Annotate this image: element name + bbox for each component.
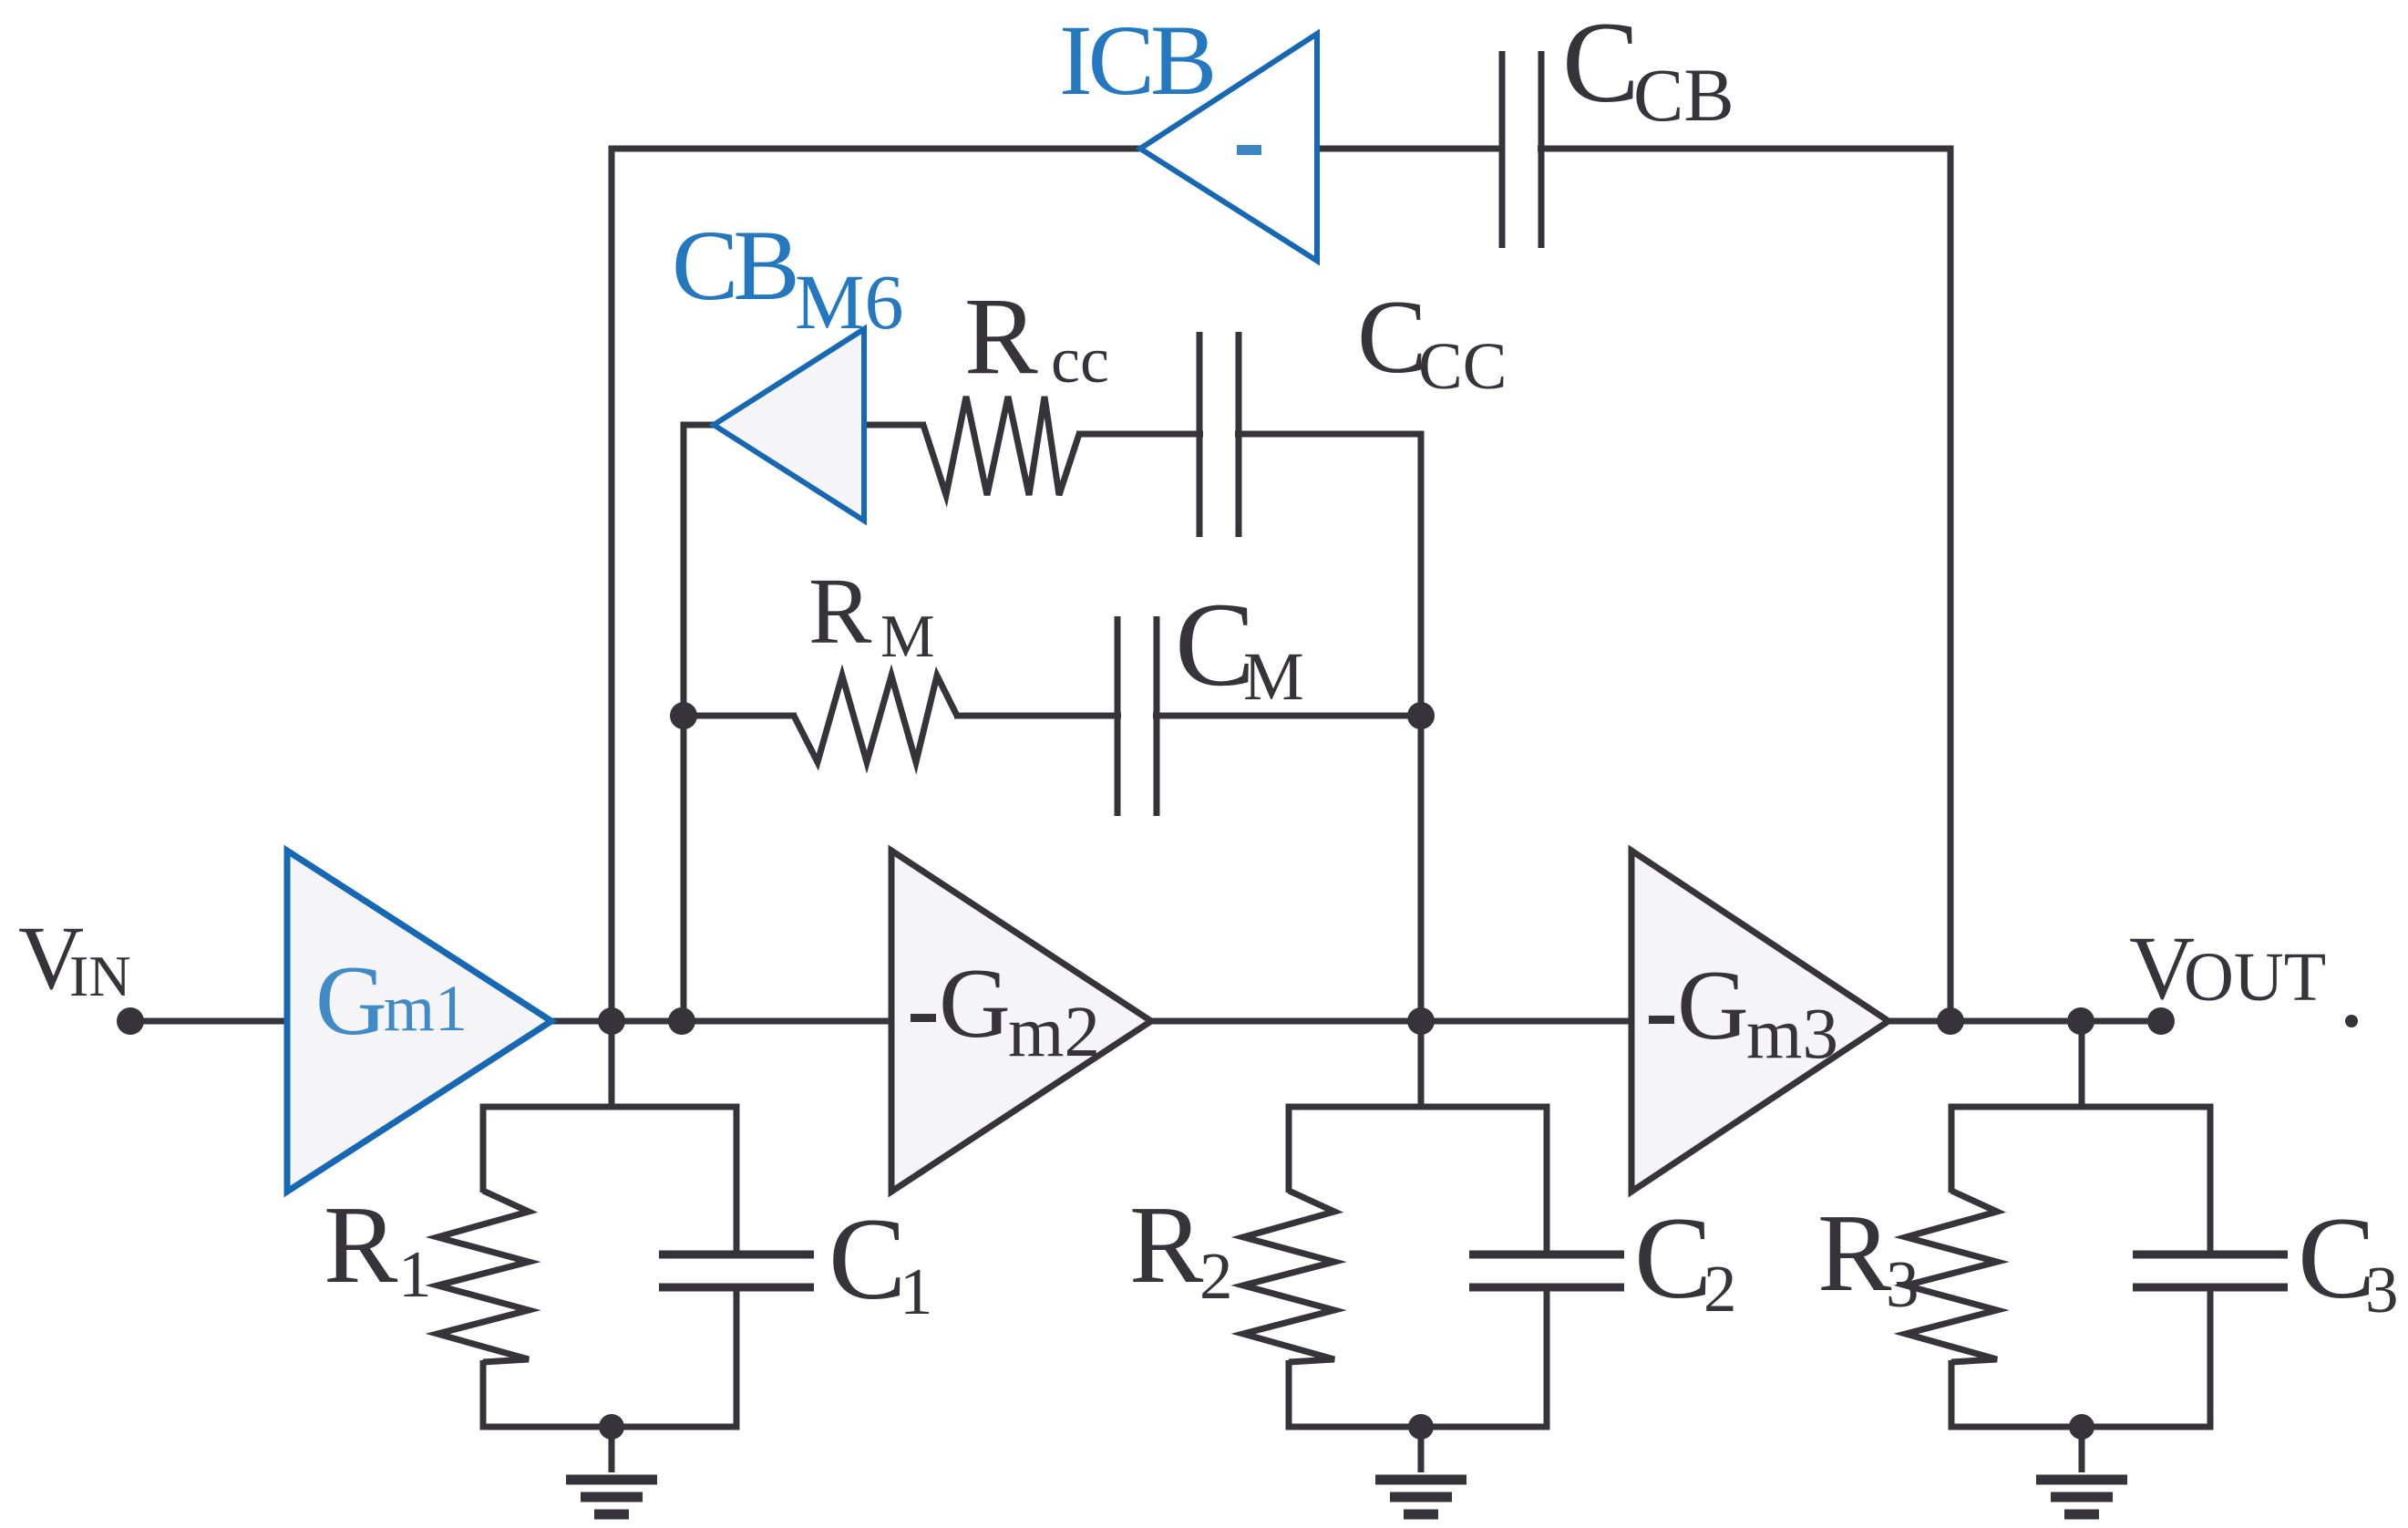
wire top feedback rail from node A up and across to ICB input bbox=[609, 146, 615, 1108]
resistor R3 zigzag bbox=[1906, 1191, 1997, 1362]
block3 bottom rail bbox=[1949, 1424, 2214, 1430]
svg-text:M: M bbox=[880, 603, 935, 670]
svg-text:C: C bbox=[2298, 1193, 2375, 1323]
label -Gm3 minus bbox=[1649, 1016, 1674, 1024]
svg-text:G: G bbox=[1677, 950, 1749, 1060]
resistor R1 top lead bbox=[480, 1107, 487, 1192]
wire Gm3 output to VOUT bbox=[1885, 1018, 2163, 1025]
svg-text:C: C bbox=[1634, 1193, 1712, 1323]
op-amp CB M6 (current buffer, points left) bbox=[714, 329, 864, 521]
wire Rcc to capacitor CCC bbox=[1076, 431, 1203, 438]
node ground 3 junction bbox=[2069, 1414, 2094, 1440]
wire drop from output node to block3 bbox=[2079, 1021, 2085, 1107]
ground 2 stem bbox=[1418, 1427, 1425, 1472]
svg-text:cc: cc bbox=[1051, 324, 1109, 397]
svg-text:2: 2 bbox=[1703, 1252, 1737, 1326]
svg-text:G: G bbox=[315, 945, 387, 1056]
capacitor C3 bottom plate bbox=[2133, 1284, 2288, 1292]
block2 bottom rail bbox=[1286, 1424, 1550, 1430]
node ground 1 junction bbox=[599, 1414, 624, 1440]
wire CCC to middle rail corner bbox=[1235, 431, 1425, 438]
capacitor C3 top plate bbox=[2133, 1251, 2288, 1259]
svg-text:R: R bbox=[1129, 1183, 1204, 1306]
svg-text:M: M bbox=[1243, 639, 1304, 715]
label -Gm2 minus bbox=[911, 1014, 936, 1022]
wire CBM6 output to resistor Rcc bbox=[861, 422, 926, 428]
wire CCB to right rail corner bbox=[1538, 146, 1954, 152]
svg-text:1: 1 bbox=[398, 1237, 432, 1311]
block3 R3/C3 top rail bbox=[1949, 1104, 2214, 1110]
ground 1 stem bbox=[609, 1427, 615, 1472]
block1 bottom rail bbox=[480, 1424, 740, 1430]
capacitor C1 bottom lead bbox=[734, 1284, 740, 1430]
capacitor C1 top plate bbox=[659, 1251, 814, 1259]
block2 R2/C2 top rail bbox=[1286, 1104, 1550, 1110]
resistor Rcc zigzag bbox=[923, 397, 1079, 495]
capacitor CM left plate bbox=[1115, 616, 1121, 816]
svg-text:1: 1 bbox=[900, 1254, 933, 1328]
op-amp ICB (inverting current buffer, points left) bbox=[1140, 34, 1317, 261]
resistor R3 top lead bbox=[1949, 1107, 1955, 1192]
node B2 (RM left junction) bbox=[670, 702, 697, 729]
svg-text:3: 3 bbox=[1886, 1247, 1919, 1321]
node E (CCB rail junction at Gm3 output) bbox=[1937, 1007, 1964, 1035]
node D (Gm2 output junction on middle rail) bbox=[1407, 1007, 1435, 1035]
svg-text:R: R bbox=[324, 1183, 398, 1306]
svg-text:2: 2 bbox=[1199, 1239, 1233, 1313]
svg-text:m1: m1 bbox=[384, 972, 468, 1045]
node VIN terminal dot bbox=[117, 1007, 144, 1035]
svg-text:m3: m3 bbox=[1746, 995, 1838, 1074]
wire node B to resistor RM bbox=[684, 713, 797, 719]
node C (CM right junction on middle rail) bbox=[1407, 702, 1435, 729]
svg-text:3: 3 bbox=[2365, 1253, 2399, 1327]
op-amp -Gm3 (third transconductance stage) bbox=[1631, 851, 1888, 1192]
svg-text:R: R bbox=[964, 275, 1038, 397]
svg-text:ICB: ICB bbox=[1059, 5, 1212, 116]
block1 R1/C1 top rail bbox=[480, 1104, 740, 1110]
capacitor CCB right plate bbox=[1538, 51, 1545, 248]
node ground 2 junction bbox=[1408, 1414, 1434, 1440]
svg-text:R: R bbox=[808, 559, 872, 664]
wire RM to capacitor CM bbox=[954, 713, 1121, 719]
wire CM to middle rail node bbox=[1153, 713, 1421, 719]
wire Gm1 output to Gm2 input bbox=[548, 1018, 895, 1025]
op-amp -Gm2 (second transconductance stage) bbox=[891, 851, 1151, 1192]
ground 2 bars bbox=[1375, 1475, 1466, 1485]
resistor R2 bottom lead bbox=[1286, 1360, 1292, 1430]
svg-text:m2: m2 bbox=[1008, 993, 1100, 1072]
resistor RM zigzag bbox=[794, 676, 957, 762]
svg-text:C: C bbox=[1357, 279, 1427, 395]
resistor R1 zigzag bbox=[437, 1191, 529, 1362]
wire middle vertical rail down through CM node to block2 bbox=[1418, 431, 1425, 1108]
capacitor C3 top lead bbox=[2207, 1107, 2214, 1258]
minus sign inside ICB bbox=[1237, 145, 1261, 155]
capacitor C1 top lead bbox=[734, 1107, 740, 1258]
wire top horizontal to ICB tip bbox=[609, 146, 1144, 152]
svg-text:IN: IN bbox=[69, 944, 131, 1008]
svg-text:CB: CB bbox=[672, 210, 795, 321]
resistor R3 bottom lead bbox=[1949, 1360, 1955, 1430]
capacitor C1 bottom plate bbox=[659, 1284, 814, 1292]
wire CBM6 left rail down to main node B bbox=[681, 422, 687, 1022]
ground 3 bars bbox=[2036, 1475, 2127, 1485]
svg-text:M6: M6 bbox=[795, 258, 903, 346]
capacitor CCB left plate bbox=[1499, 51, 1506, 248]
node B (CBM6 rail junction on main line) bbox=[668, 1007, 695, 1035]
svg-text:G: G bbox=[939, 948, 1011, 1058]
capacitor CCC left plate bbox=[1197, 332, 1203, 537]
svg-text:R: R bbox=[1817, 1192, 1892, 1315]
svg-text:C: C bbox=[828, 1194, 906, 1324]
resistor R2 zigzag bbox=[1243, 1191, 1334, 1362]
wire VIN to Gm1 input bbox=[130, 1018, 291, 1025]
svg-text:CB: CB bbox=[1633, 53, 1734, 137]
wire right vertical rail down to output node bbox=[1948, 146, 1954, 1022]
capacitor C2 bottom lead bbox=[1544, 1284, 1550, 1430]
capacitor C2 top lead bbox=[1544, 1107, 1550, 1258]
node A (Gm1 output / C1 rail junction) bbox=[598, 1007, 625, 1035]
ground 1 bars bbox=[566, 1475, 657, 1485]
capacitor CM right plate bbox=[1154, 616, 1160, 816]
svg-text:CC: CC bbox=[1418, 329, 1507, 403]
wire Gm2 output to Gm3 input bbox=[1147, 1018, 1635, 1025]
capacitor C3 bottom lead bbox=[2207, 1284, 2214, 1430]
svg-text:OUT: OUT bbox=[2184, 939, 2326, 1016]
svg-text:C: C bbox=[1562, 0, 1640, 127]
ground 3 stem bbox=[2079, 1427, 2085, 1472]
capacitor C2 top plate bbox=[1469, 1251, 1624, 1259]
node F (R3C3 drop junction) bbox=[2067, 1007, 2094, 1035]
wire ICB output to capacitor CCB bbox=[1314, 146, 1505, 152]
capacitor C2 bottom plate bbox=[1469, 1284, 1624, 1292]
node stray small dot right of VOUT bbox=[2345, 1015, 2358, 1027]
op-amp Gm1 (first transconductance stage) bbox=[287, 851, 551, 1192]
resistor R2 top lead bbox=[1286, 1107, 1292, 1192]
wire CBM6 tip to left corner bbox=[681, 422, 717, 428]
node VOUT terminal dot bbox=[2147, 1007, 2175, 1035]
capacitor CCC right plate bbox=[1236, 332, 1242, 537]
resistor R1 bottom lead bbox=[480, 1360, 487, 1430]
